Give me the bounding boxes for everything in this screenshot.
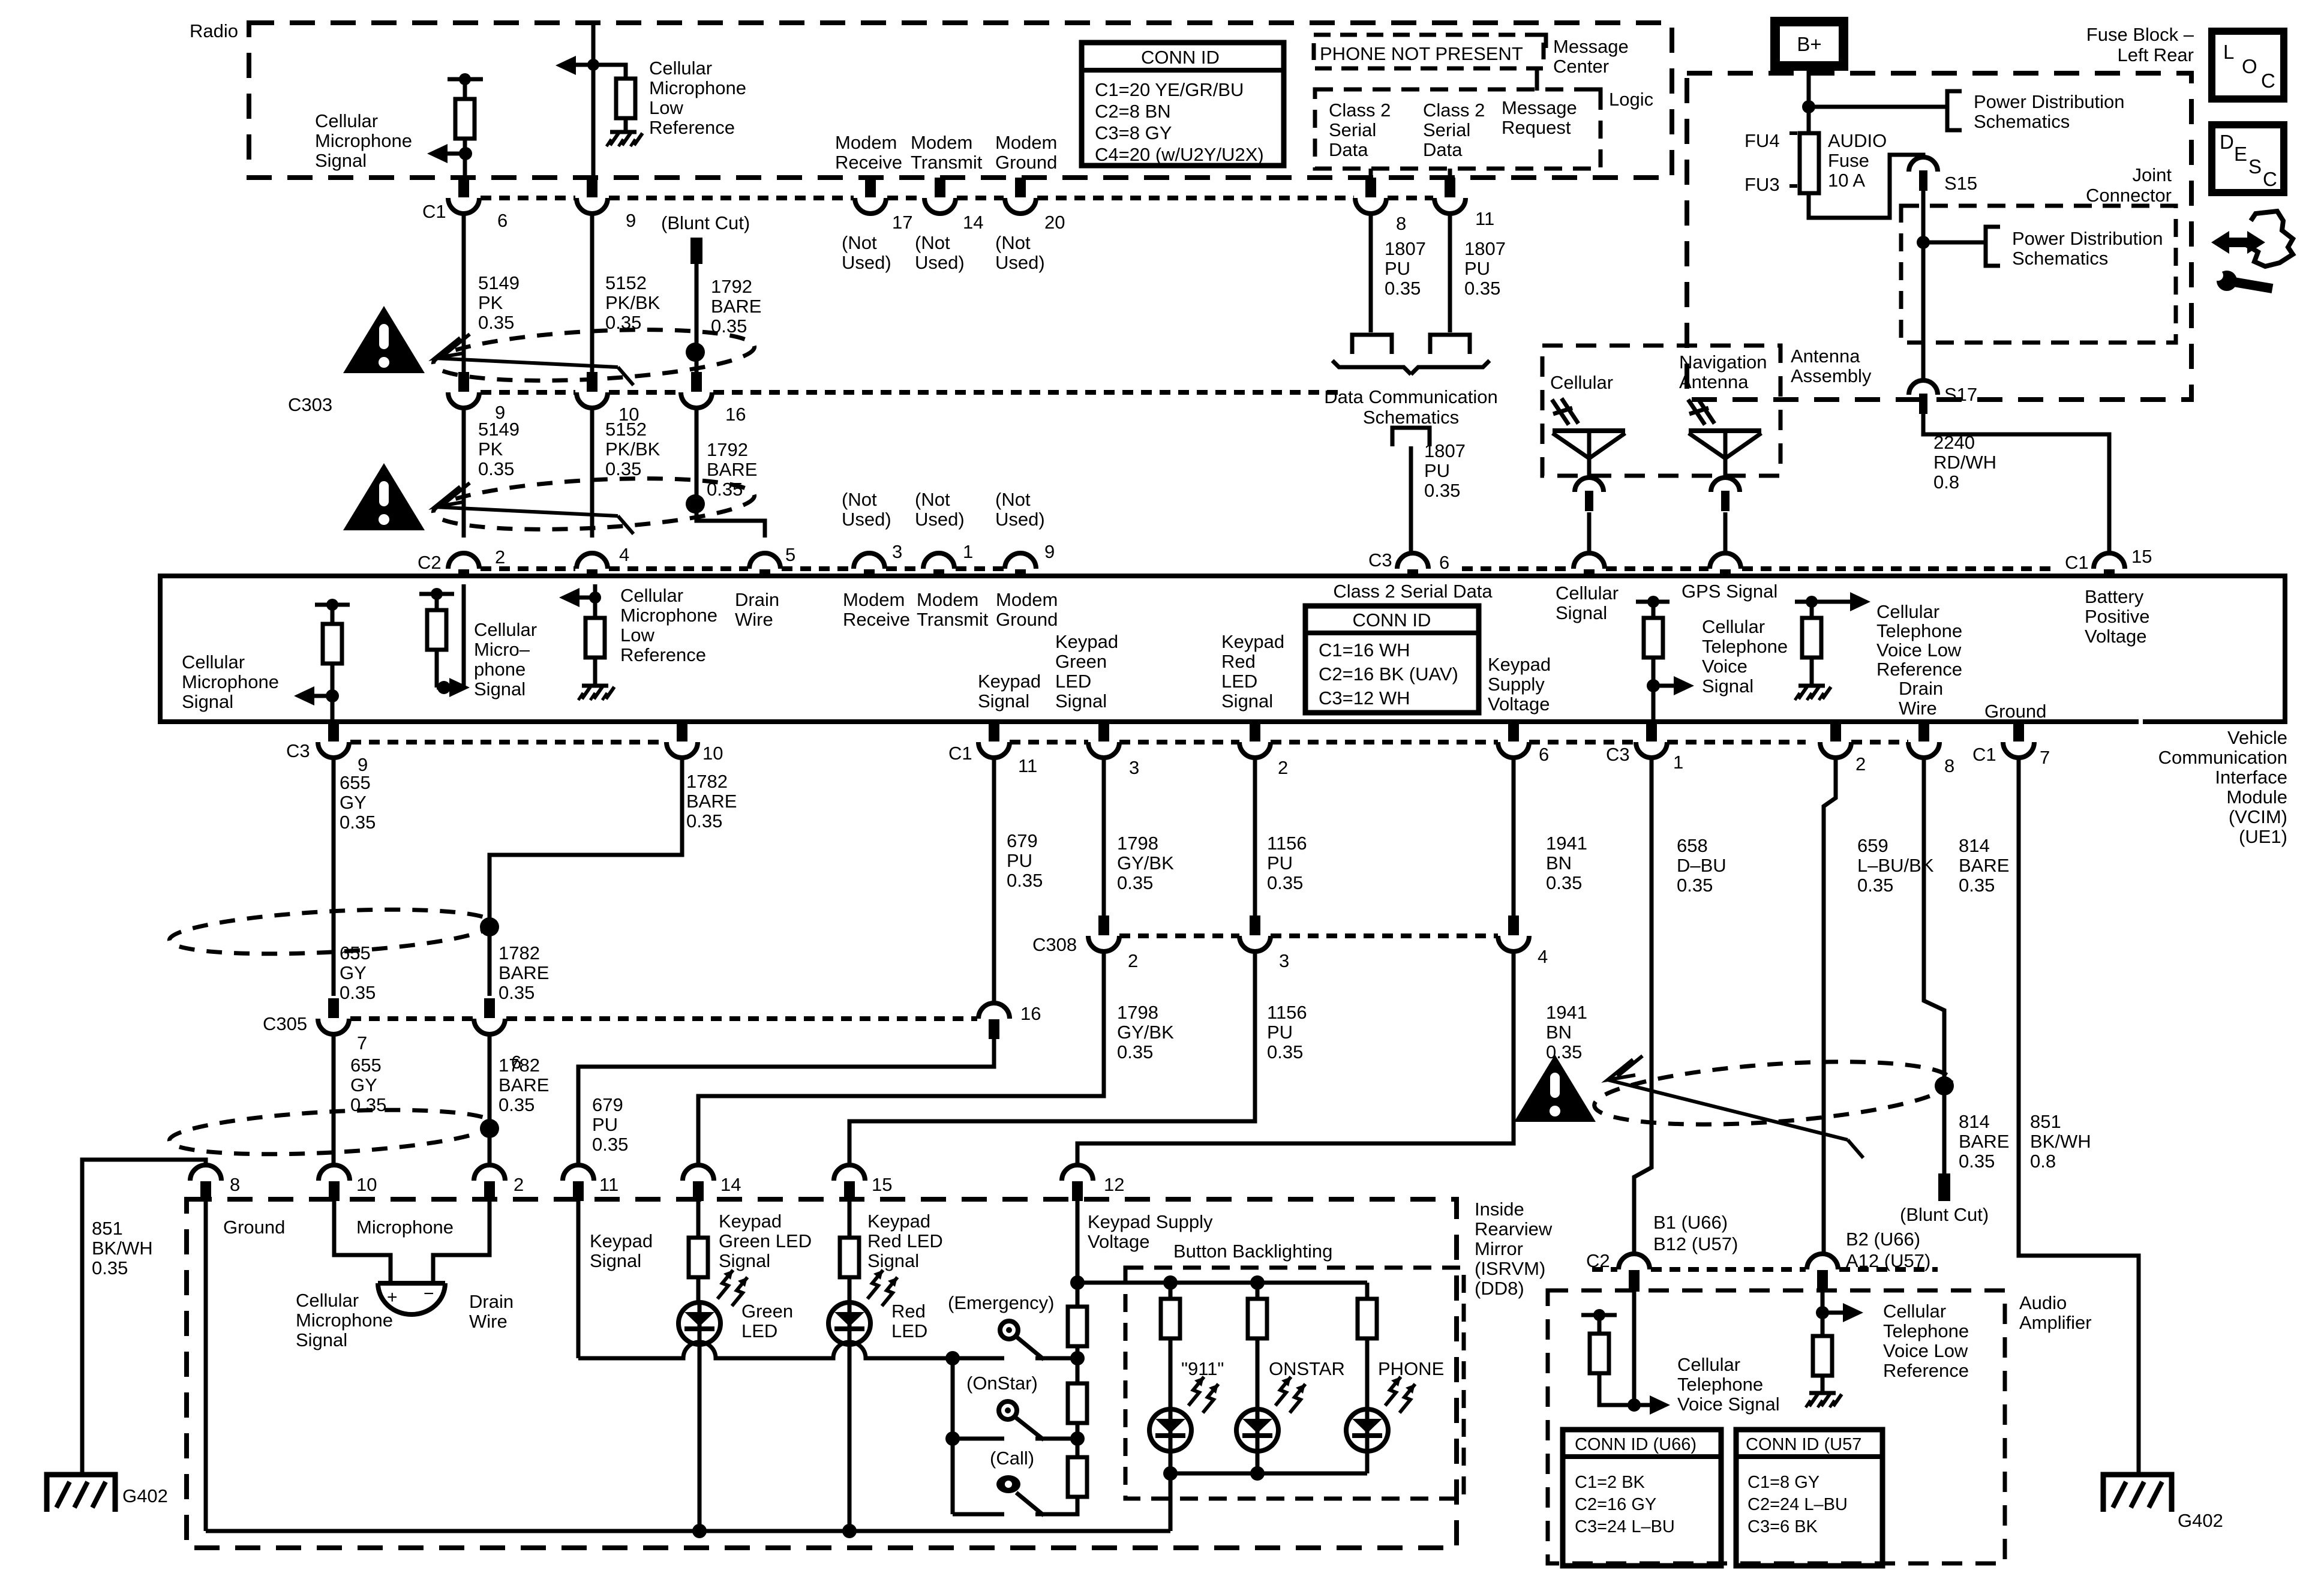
- svg-text:Modem: Modem: [917, 589, 978, 610]
- svg-text:C3: C3: [1606, 744, 1630, 765]
- svg-text:Used): Used): [915, 252, 965, 273]
- wire 1798 GY/BK (C308-2 to ISRVM-14): [698, 951, 1104, 1166]
- junction dot (backlight common 2): [1250, 1466, 1265, 1481]
- ground G402 (left): [47, 1475, 168, 1512]
- svg-text:Assembly: Assembly: [1791, 365, 1872, 386]
- C303 label: [288, 394, 332, 415]
- svg-text:Data Communication: Data Communication: [1324, 386, 1497, 407]
- wire (pin 15 to red resistor): [848, 1199, 852, 1238]
- VCIM name label: [2158, 727, 2287, 847]
- connector B1/B12: [1619, 1254, 1650, 1292]
- svg-text:655: 655: [340, 772, 371, 793]
- arrow (VCIM mic signal, left): [294, 686, 332, 706]
- svg-text:B+: B+: [1797, 33, 1821, 55]
- switch contact (Emergency): [1000, 1321, 1018, 1339]
- resistor (cellular telephone voice low reference): [1795, 596, 1828, 685]
- svg-text:Interface: Interface: [2215, 767, 2287, 788]
- Data Communication Schematics label: [1324, 386, 1497, 428]
- svg-text:L: L: [2223, 41, 2234, 63]
- (Not Used) label pin 9: [995, 489, 1045, 530]
- Cellular label (antenna): [1550, 372, 1613, 393]
- svg-text:679: 679: [592, 1094, 623, 1115]
- (Not Used) label pin 14: [915, 232, 965, 273]
- svg-text:5149: 5149: [478, 419, 520, 440]
- wire 1792 BARE (C303-16 to C2-5): [696, 408, 765, 538]
- svg-text:Drain: Drain: [735, 589, 779, 610]
- svg-text:Used): Used): [842, 509, 891, 530]
- svg-text:7: 7: [2040, 747, 2050, 768]
- Radio label: [190, 20, 238, 41]
- svg-text:1156: 1156: [1267, 1002, 1307, 1023]
- ISRVM name label: [1475, 1199, 1553, 1299]
- svg-text:659: 659: [1857, 835, 1888, 856]
- wire 1156 PU (C308-3 to ISRVM-15): [849, 951, 1255, 1166]
- C1 label (bottom far right): [1972, 744, 1996, 765]
- B+ battery feed box: [1775, 22, 1843, 66]
- Navigation Antenna label: [1679, 352, 1767, 392]
- Modem Transmit label (VCIM): [917, 589, 989, 630]
- VCIM bottom dashed line C1: [1010, 740, 1636, 745]
- junction dot (radio mic signal): [459, 147, 472, 160]
- Class 2 Serial Data label 1: [1329, 100, 1391, 160]
- connector C303 pin 10: [577, 372, 639, 425]
- Red LED label: [891, 1301, 927, 1341]
- label 814 BARE 0.35 (lower): [1959, 1111, 2009, 1172]
- svg-text:GPS Signal: GPS Signal: [1682, 581, 1777, 602]
- wire 1798 GY/BK (C1-3 to C308-2): [1102, 758, 1106, 915]
- svg-text:Low: Low: [649, 97, 683, 118]
- label 679 PU 0.35 (lower): [592, 1094, 628, 1155]
- svg-text:Green: Green: [1055, 651, 1107, 672]
- svg-text:0.35: 0.35: [1546, 1041, 1582, 1062]
- Modem Ground label (radio): [995, 132, 1057, 173]
- svg-text:Cellular: Cellular: [649, 58, 712, 79]
- connector C1 pin 8: [1355, 178, 1406, 234]
- junction dot (green LED return): [692, 1524, 707, 1538]
- Audio Amplifier dashed box: [1548, 1290, 2005, 1563]
- wire (B2 into amp box): [1821, 1291, 1825, 1336]
- svg-text:C3: C3: [1368, 550, 1392, 571]
- wire 1156 PU (C1-2 to C308-3): [1253, 758, 1257, 915]
- svg-text:0.35: 0.35: [1267, 872, 1303, 893]
- junction dot (backlight common 1): [1163, 1466, 1178, 1481]
- svg-text:1941: 1941: [1546, 833, 1587, 854]
- junction dot (amp voice low ref): [1816, 1306, 1829, 1319]
- VCIM bottom dashed line C3 right: [1667, 740, 1908, 745]
- svg-text:0.35: 0.35: [1546, 872, 1582, 893]
- svg-text:Keypad: Keypad: [978, 671, 1041, 692]
- svg-text:0.35: 0.35: [478, 312, 514, 333]
- wire (ISRVM return line): [206, 1529, 1170, 1533]
- svg-text:PK/BK: PK/BK: [605, 292, 660, 313]
- connector C1 pin 7 (bottom): [2003, 722, 2050, 768]
- svg-text:Data: Data: [1423, 139, 1463, 160]
- wire 1792 BARE (blunt cut to C303-16): [695, 264, 699, 372]
- svg-text:(Blunt Cut): (Blunt Cut): [1900, 1204, 1989, 1225]
- svg-text:Transmit: Transmit: [911, 152, 983, 173]
- svg-text:Cellular: Cellular: [1677, 1354, 1740, 1375]
- svg-text:Signal: Signal: [1221, 691, 1273, 712]
- svg-text:C1: C1: [948, 743, 972, 764]
- wire 1782 BARE (C305-6 to ISRVM-2): [488, 1034, 492, 1166]
- wire (pin 12 to supply node): [1076, 1199, 1080, 1307]
- wire (911 resistor to LED): [1169, 1338, 1173, 1409]
- PHONE NOT PRESENT box: [1314, 35, 1546, 68]
- Modem Receive label (radio): [835, 132, 902, 173]
- resistor (VCIM cellular microphone low reference): [585, 598, 605, 685]
- CONN ID (U66) table: [1563, 1430, 1721, 1566]
- svg-text:0.35: 0.35: [499, 982, 535, 1003]
- svg-text:Serial: Serial: [1423, 119, 1470, 140]
- arrow (amp voice low ref, right): [1822, 1303, 1863, 1322]
- connector C1 pin 20: [1005, 178, 1065, 233]
- resistor (keypad chain C): [1068, 1457, 1087, 1497]
- Fuse Block - Left Rear label: [2086, 24, 2194, 65]
- wire (ISRVM pin 10 to microphone): [334, 1199, 391, 1283]
- wire keypad signal (pin 11 down): [577, 1199, 581, 1358]
- svg-text:C3=24 L–BU: C3=24 L–BU: [1575, 1517, 1675, 1536]
- label 1782 BARE 0.35 (upper): [686, 771, 737, 831]
- connector C1 pin 11 (bottom): [978, 722, 1037, 776]
- connector C2 pin 2: [448, 547, 505, 577]
- connector B2/A12: [1807, 1254, 1838, 1292]
- connector C3 pin 2 (bottom right): [1820, 722, 1866, 775]
- svg-text:GY: GY: [340, 792, 367, 813]
- svg-text:0.35: 0.35: [605, 458, 641, 479]
- svg-text:0.35: 0.35: [478, 458, 514, 479]
- navigation antenna splice: [1711, 476, 1740, 554]
- svg-text:Green LED: Green LED: [719, 1230, 812, 1251]
- svg-text:814: 814: [1959, 835, 1990, 856]
- svg-text:1: 1: [1673, 752, 1683, 773]
- svg-text:2: 2: [1278, 757, 1288, 778]
- svg-text:Class 2: Class 2: [1329, 100, 1391, 121]
- svg-text:Low: Low: [620, 625, 654, 646]
- junction dot (joint connector): [1917, 236, 1930, 249]
- C3 label (bottom left): [286, 740, 310, 761]
- svg-text:Ground: Ground: [996, 609, 1058, 630]
- svg-text:C: C: [2261, 70, 2275, 92]
- resistor (VCIM cellular microphone signal): [315, 599, 350, 722]
- connector C1 pin 14: [924, 178, 983, 233]
- svg-text:10: 10: [702, 743, 723, 764]
- svg-text:Cellular: Cellular: [182, 652, 245, 673]
- wire (backlight LED common): [1170, 1451, 1367, 1473]
- svg-text:0.35: 0.35: [92, 1257, 128, 1278]
- junction dot (amp voice signal): [1628, 1398, 1641, 1412]
- label 1941 BN 0.35 (upper): [1546, 833, 1587, 893]
- Keypad Red LED Signal label (VCIM): [1221, 631, 1284, 712]
- svg-text:PU: PU: [1267, 852, 1293, 873]
- svg-text:GY: GY: [340, 962, 367, 983]
- connector C303 pin 9: [448, 372, 505, 423]
- connector C1 pin 9: [577, 178, 636, 231]
- junction dot (VCIM mic signal 2): [437, 681, 451, 694]
- wire 5152 PK/BK (C1-9 to C303-10): [590, 214, 594, 372]
- wire (S15 to S17): [1921, 191, 1926, 380]
- svg-text:Telephone: Telephone: [1702, 636, 1788, 657]
- svg-text:C1: C1: [422, 201, 446, 222]
- svg-text:C1: C1: [1972, 744, 1996, 765]
- svg-text:Request: Request: [1502, 117, 1571, 138]
- svg-text:Used): Used): [995, 509, 1045, 530]
- svg-text:BK/WH: BK/WH: [2030, 1131, 2091, 1152]
- svg-text:Red LED: Red LED: [867, 1230, 943, 1251]
- svg-text:20: 20: [1044, 212, 1065, 233]
- svg-text:1792: 1792: [711, 276, 752, 297]
- connector C2 pin 5: [749, 544, 795, 577]
- svg-text:1798: 1798: [1117, 833, 1158, 854]
- connector ISRVM pin 15: [834, 1165, 892, 1201]
- resistor (cellular telephone voice signal): [1636, 596, 1670, 722]
- shield arrow 2: [435, 483, 633, 534]
- switch blade (OnStar): [1015, 1417, 1044, 1440]
- resistor (red LED): [840, 1238, 859, 1277]
- chassis ground (amp voice low reference): [1806, 1393, 1842, 1407]
- wire (red LED to return): [848, 1344, 852, 1531]
- Message Center label: [1553, 36, 1629, 77]
- svg-text:Reference: Reference: [620, 644, 706, 665]
- Keypad Green LED Signal label (ISRVM): [719, 1211, 812, 1271]
- svg-text:2: 2: [495, 547, 505, 568]
- arrow (amp voice signal, right): [1634, 1395, 1670, 1415]
- wire (PHONE resistor to LED): [1365, 1338, 1370, 1409]
- svg-text:0.35: 0.35: [1007, 870, 1043, 891]
- splice S17: [1909, 380, 1977, 414]
- label 658 D-BU 0.35: [1677, 835, 1727, 896]
- svg-text:Signal: Signal: [474, 679, 526, 700]
- PHONE label: [1378, 1358, 1444, 1379]
- connector C1 pin 15 (VCIM top): [2094, 546, 2152, 577]
- svg-text:2: 2: [514, 1174, 524, 1195]
- CONN ID table (radio): [1082, 43, 1284, 166]
- label 1782 BARE 0.35 (mid): [499, 942, 549, 1003]
- arrow (VCIM mic low ref, left): [559, 588, 595, 607]
- svg-text:10 A: 10 A: [1828, 170, 1865, 191]
- svg-text:Fuse: Fuse: [1828, 150, 1869, 171]
- Cellular Microphone Signal label (ISRVM): [296, 1290, 393, 1350]
- Cellular Telephone Voice Signal label (VCIM): [1702, 616, 1788, 697]
- svg-text:0.35: 0.35: [1267, 1041, 1303, 1062]
- wire (B+ to power distribution): [1809, 105, 1947, 109]
- svg-text:2240: 2240: [1933, 432, 1975, 453]
- wire 655 GY (C3-9 to C305-7): [332, 758, 336, 996]
- inline connector pin 16: [978, 1003, 1041, 1039]
- shield ellipse 3 (814/851): [1592, 1052, 1953, 1134]
- Logic dashed box: [1315, 89, 1601, 169]
- Button Backlighting label: [1173, 1241, 1332, 1262]
- wire (fuse to S15): [1809, 155, 1923, 218]
- svg-text:(ISRVM): (ISRVM): [1475, 1258, 1545, 1279]
- label 1941 BN 0.35 (lower): [1546, 1002, 1587, 1062]
- C303 row dashed line: [481, 390, 1344, 395]
- connector ISRVM pin 8: [190, 1165, 240, 1201]
- svg-text:3: 3: [1279, 950, 1289, 971]
- (Call) label: [990, 1448, 1034, 1469]
- (Blunt Cut) label: [661, 212, 750, 233]
- shield arrow 1: [435, 334, 633, 385]
- svg-text:LED: LED: [1221, 671, 1257, 692]
- svg-text:1156: 1156: [1267, 833, 1307, 854]
- resistor (VCIM cellular micro-phone signal 2): [419, 588, 454, 688]
- junction dot (chain tap 2): [1070, 1431, 1085, 1446]
- connector C305 pin 7: [318, 998, 367, 1053]
- svg-text:GY: GY: [350, 1074, 377, 1095]
- C308 row dashed line: [1119, 933, 1498, 938]
- svg-text:Voltage: Voltage: [1488, 694, 1550, 715]
- wire 851 BK/WH (G402 to ISRVM-8): [82, 1160, 206, 1475]
- svg-text:Wire: Wire: [1899, 698, 1937, 719]
- wire 1807 PU (C1-11 down): [1448, 214, 1452, 332]
- wire (pin 8 stub from logic box): [1369, 169, 1373, 178]
- connector C2 pin 9: [1005, 541, 1055, 577]
- brace (data communication): [1332, 361, 1490, 374]
- resistor (green LED): [689, 1238, 708, 1277]
- wire 1941 BN (C1-6 to C308-4): [1512, 758, 1516, 915]
- svg-text:6: 6: [1439, 552, 1449, 573]
- GPS Signal label (VCIM): [1682, 581, 1777, 602]
- VCIM bottom dashed line C3: [350, 740, 665, 745]
- svg-text:Signal: Signal: [1556, 602, 1607, 623]
- wire (ONSTAR branch down): [1256, 1283, 1260, 1299]
- wire (PHONE branch down): [1365, 1283, 1370, 1299]
- C308 label: [1032, 934, 1077, 955]
- svg-text:8: 8: [1396, 213, 1406, 234]
- microphone symbol: [378, 1283, 445, 1314]
- C1 label: [422, 201, 446, 222]
- connector C308 pin 3: [1239, 915, 1289, 971]
- Logic label: [1609, 89, 1653, 110]
- svg-text:C1=8 GY: C1=8 GY: [1747, 1473, 1819, 1492]
- junction dot (signal branch 2): [945, 1431, 960, 1446]
- svg-text:(VCIM): (VCIM): [2229, 806, 2287, 827]
- A12 (U57) label: [1846, 1250, 1930, 1271]
- svg-text:Cellular: Cellular: [1556, 583, 1619, 604]
- svg-text:658: 658: [1677, 835, 1708, 856]
- Keypad Signal label (ISRVM): [590, 1230, 653, 1271]
- label 1798 GY/BK 0.35 (upper): [1117, 833, 1174, 893]
- svg-text:1782: 1782: [499, 942, 540, 963]
- svg-text:Logic: Logic: [1609, 89, 1653, 110]
- Cellular Microphone Signal label (VCIM): [182, 652, 279, 712]
- svg-text:O: O: [2242, 55, 2257, 77]
- svg-text:655: 655: [340, 942, 371, 963]
- svg-text:Green: Green: [741, 1301, 793, 1322]
- svg-text:(Not: (Not: [915, 232, 950, 253]
- wire (chain B-C): [1076, 1423, 1080, 1457]
- svg-text:C2=16 GY: C2=16 GY: [1575, 1495, 1656, 1514]
- svg-text:BARE: BARE: [1959, 855, 2009, 876]
- Power Distribution Schematics label 2: [2012, 228, 2163, 269]
- junction dot (keypad signal branch): [945, 1351, 960, 1365]
- connector ISRVM pin 12: [1062, 1165, 1124, 1201]
- wire (signal branch vertical): [951, 1358, 955, 1514]
- svg-text:2: 2: [1128, 950, 1138, 971]
- svg-text:4: 4: [619, 544, 629, 565]
- wire (B+ down): [1807, 66, 1811, 133]
- (Blunt Cut) label (814): [1900, 1204, 1989, 1225]
- svg-text:Signal: Signal: [978, 691, 1029, 712]
- chassis ground (voice low reference): [1795, 686, 1831, 700]
- svg-text:Signal: Signal: [296, 1329, 347, 1350]
- svg-text:(Not: (Not: [842, 489, 877, 510]
- svg-text:Receive: Receive: [843, 609, 910, 630]
- connector C305 pin 6: [474, 998, 521, 1073]
- svg-text:0.35: 0.35: [499, 1094, 535, 1115]
- svg-text:Wire: Wire: [469, 1311, 508, 1332]
- svg-text:Voltage: Voltage: [1088, 1231, 1149, 1252]
- switch blade (Call): [1016, 1493, 1044, 1515]
- C2 label (B1 connector): [1586, 1250, 1610, 1271]
- svg-text:PU: PU: [1385, 258, 1410, 279]
- Cellular Micro-phone Signal label (VCIM): [474, 619, 537, 700]
- svg-text:Signal: Signal: [182, 691, 233, 712]
- B2 (U66) label: [1846, 1229, 1920, 1250]
- wire (OnStar left segment): [953, 1437, 1004, 1441]
- svg-text:Keypad: Keypad: [867, 1211, 930, 1232]
- svg-text:Antenna: Antenna: [1679, 371, 1749, 392]
- svg-text:Modem: Modem: [835, 132, 897, 153]
- label 655 GY 0.35 (mid): [340, 942, 376, 1003]
- svg-text:6: 6: [1539, 744, 1549, 765]
- svg-text:phone: phone: [474, 659, 526, 680]
- wire (chain A-B): [1076, 1346, 1080, 1383]
- svg-text:C2=16 BK (UAV): C2=16 BK (UAV): [1319, 664, 1458, 685]
- B1 (U66) label: [1653, 1212, 1728, 1233]
- arrow (voice signal, right): [1653, 676, 1694, 695]
- svg-text:Red: Red: [1221, 651, 1256, 672]
- LOC reference box: [2212, 31, 2284, 99]
- svg-text:Positive: Positive: [2085, 606, 2150, 627]
- Audio Amplifier label: [2019, 1292, 2092, 1333]
- splice S15: [1909, 157, 1977, 194]
- svg-text:GY/BK: GY/BK: [1117, 1022, 1174, 1043]
- C305 label: [263, 1013, 307, 1034]
- svg-text:814: 814: [1959, 1111, 1990, 1132]
- svg-text:Cellular: Cellular: [1550, 372, 1613, 393]
- connector C3 pin 1 (bottom): [1636, 722, 1683, 773]
- svg-text:Used): Used): [842, 252, 891, 273]
- svg-text:PU: PU: [1007, 850, 1032, 871]
- svg-text:FU3: FU3: [1744, 174, 1780, 195]
- wire 659 L-BU/BK (C3-2 to B2): [1824, 758, 1836, 1255]
- label 5149 PK 0.35 (lower): [478, 419, 520, 479]
- switch contact (OnStar): [999, 1401, 1017, 1419]
- connector C1 pin 3 (bottom): [1088, 722, 1139, 778]
- connector C303 pin 16: [681, 372, 746, 425]
- svg-text:Navigation: Navigation: [1679, 352, 1767, 373]
- svg-text:1807: 1807: [1385, 238, 1426, 259]
- (Not Used) label pin 1: [915, 489, 965, 530]
- wire 679 PU (C1-11 to connector 16): [992, 758, 996, 1004]
- junction dot (1792 shield 1): [686, 343, 705, 362]
- connector C2 pin 4: [577, 544, 629, 577]
- svg-text:0.35: 0.35: [340, 982, 376, 1003]
- svg-text:1807: 1807: [1464, 238, 1506, 259]
- svg-text:Signal: Signal: [719, 1250, 770, 1271]
- svg-text:851: 851: [92, 1218, 123, 1239]
- svg-text:Microphone: Microphone: [620, 605, 717, 626]
- svg-text:FU4: FU4: [1744, 130, 1780, 151]
- svg-text:(DD8): (DD8): [1475, 1278, 1524, 1299]
- svg-text:PU: PU: [1464, 258, 1490, 279]
- LED (ONSTAR): [1236, 1377, 1305, 1451]
- label 1156 PU 0.35 (lower): [1267, 1002, 1307, 1062]
- warning triangle 3: [1514, 1055, 1596, 1122]
- svg-text:Antenna: Antenna: [1791, 346, 1860, 367]
- connector ISRVM pin 10: [319, 1165, 377, 1201]
- connector C1 pin 6: [448, 178, 508, 231]
